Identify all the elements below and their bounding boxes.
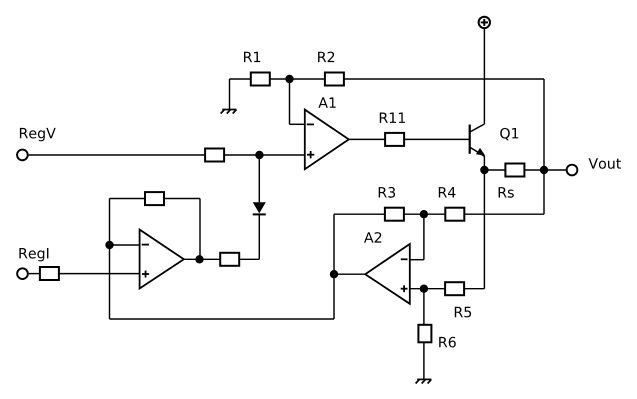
resistor R1: [251, 73, 270, 86]
wire R5 right to emitter drop: [464, 288, 484, 290]
wire R2 right to top-right corner: [344, 78, 544, 80]
label R3: [379, 187, 395, 198]
wire A2 output to node: [334, 273, 365, 275]
terminal RegI: [17, 268, 28, 279]
label R2: [318, 52, 334, 63]
wire A2 feedback top to R3: [334, 213, 385, 215]
op-amp A1: [305, 110, 349, 170]
wire diode cathode vertical: [258, 214, 260, 259]
wire into A2 - input: [410, 259, 424, 261]
node A2 + input: [420, 285, 428, 293]
wire Q1 emitter vertical to node: [483, 156, 485, 170]
wire feedback resistor to right corner: [164, 198, 200, 200]
wire Q1 collector vertical to power: [483, 28, 485, 124]
label R11: [380, 113, 405, 123]
wire right vertical R2 corner down to R4 line: [543, 79, 545, 214]
resistor opamp3 feedback: [145, 192, 164, 205]
wire R3 to R4: [404, 213, 445, 215]
label Vout: [589, 158, 622, 169]
wire RegI terminal to resistor: [29, 273, 40, 275]
wire A2 + input to R5: [410, 288, 445, 290]
wire R11 to Q1 base: [404, 138, 470, 140]
resistor opamp3 output: [220, 253, 239, 266]
resistor R11: [385, 133, 404, 146]
wire feedback right vertical to output node: [199, 199, 201, 260]
resistor R3: [385, 208, 404, 221]
wire emitter node down to R5 line: [483, 170, 485, 289]
wire bottom feedback horizontal: [110, 318, 335, 320]
wire A2 + node down to R6: [423, 289, 425, 325]
transistor Q1: [470, 124, 486, 156]
wire feedback top left to resistor: [110, 198, 146, 200]
wire emitter node to Rs: [484, 169, 505, 171]
wire RegI resistor to opamp3 + input: [59, 273, 140, 275]
label RegI: [19, 248, 48, 261]
node opamp3 output: [195, 255, 203, 263]
wire diode anode vertical to RegV line: [258, 155, 260, 202]
resistor RegV series: [205, 149, 224, 162]
label A1: [318, 97, 335, 107]
label R5: [455, 307, 471, 318]
node A2 output: [330, 270, 338, 278]
wire R1 left to ground drop: [230, 78, 251, 80]
resistor R4: [445, 208, 464, 221]
node Vout junction: [540, 166, 548, 174]
wire R3/R4 node down to A2 - input: [423, 214, 425, 260]
resistor R6: [418, 325, 431, 343]
wire RegV terminal to series resistor: [29, 154, 206, 156]
wire bottom feedback left vertical: [109, 245, 111, 319]
wire Rs to Vout terminal: [524, 169, 567, 171]
resistor Rs: [505, 164, 524, 177]
node RegV/diode: [255, 151, 263, 159]
label R4: [439, 187, 456, 197]
op-amp U3: [140, 230, 184, 289]
wire into opamp3 - input: [110, 244, 140, 246]
terminal Vout: [567, 165, 578, 176]
op-amp A2: [365, 244, 410, 304]
diode D1: [253, 202, 266, 214]
wire R4 right to right vertical: [464, 213, 544, 215]
resistor R2: [325, 73, 344, 86]
terminal RegV: [17, 150, 28, 161]
ground G1: [221, 110, 237, 114]
wire series resistor to A1 + input: [224, 154, 305, 156]
node after R1: [285, 75, 293, 83]
label Q1: [500, 128, 518, 140]
wire A1 output to R11: [349, 138, 385, 140]
node R3/R4: [420, 210, 428, 218]
wire R6 to ground: [423, 342, 425, 379]
node Q1 emitter: [480, 166, 488, 174]
wire ground drop vertical: [229, 79, 231, 109]
ground G2: [416, 379, 432, 383]
resistor R5: [445, 282, 464, 295]
power positive supply: [479, 17, 490, 28]
wire A2 output node vertical: [333, 214, 335, 319]
node opamp3 - input: [105, 241, 113, 249]
label RegV: [20, 128, 56, 141]
wire opamp3 feedback left vertical: [109, 199, 111, 246]
label A2: [364, 232, 381, 243]
wire R1 right to R2 left: [270, 78, 325, 80]
label R1: [244, 52, 260, 62]
label R6: [439, 337, 456, 348]
resistor RegI series: [40, 267, 59, 280]
label Rs: [499, 187, 514, 198]
wire into A1 - input: [290, 123, 305, 125]
wire output resistor to diode corner: [239, 258, 259, 260]
wire opamp3 output to series resistor: [184, 258, 220, 260]
wire node after R1 down to A1 - input: [289, 79, 291, 124]
